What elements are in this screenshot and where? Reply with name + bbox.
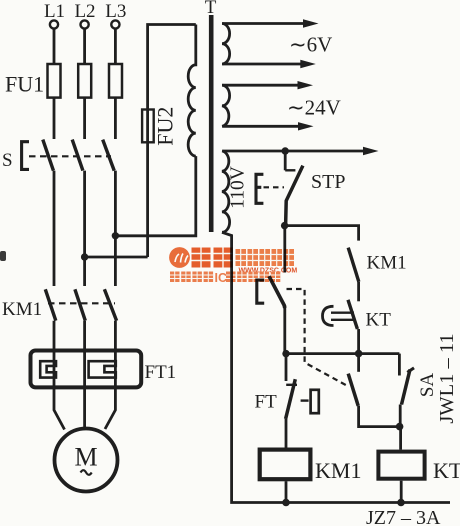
contact KT delayed blade (348, 300, 357, 329)
wire SA to node (399, 405, 402, 427)
pushbutton STP blade (286, 166, 303, 226)
wire 6V top with arrow (223, 22, 307, 25)
switch SA blade (402, 370, 411, 405)
contact FT thermal element (311, 390, 319, 413)
switch SA tick (407, 368, 414, 373)
wire L2 drop (83, 29, 86, 64)
wire L1 to switch (53, 98, 56, 139)
svg-text:T: T (205, 0, 217, 18)
node junction KT rail (397, 499, 405, 507)
transformer T core (209, 15, 214, 232)
contact KT-path NO lower lead (359, 406, 400, 427)
wire junction to KM1 branch (285, 226, 359, 241)
watermark slogan (170, 272, 280, 283)
svg-text:S: S (2, 150, 13, 171)
svg-text:STP: STP (311, 171, 345, 193)
coil KM1 (260, 450, 311, 480)
node junction 110V top (282, 147, 289, 154)
node L1 (44, 1, 65, 29)
contactor KM1 blade 1 (45, 289, 56, 320)
svg-text:∼6V: ∼6V (289, 33, 332, 57)
wire L3 to switch (114, 98, 117, 139)
wire 24V bottom with arrow (223, 125, 302, 128)
wire L1 KM1 to motor (54, 321, 65, 430)
wire L1 drop (53, 29, 56, 64)
switch S blade 2 (72, 140, 83, 171)
svg-text:KM1: KM1 (315, 458, 361, 483)
switch S blade 1 (43, 140, 54, 171)
svg-text:M: M (74, 443, 97, 472)
fuse FU2 (142, 110, 154, 143)
contact KM1 auxiliary blade (348, 248, 359, 282)
transformer 24V secondary winding (222, 85, 230, 126)
fuse FU1c (109, 64, 122, 98)
contact KT-path NO blade (348, 374, 358, 406)
fuse FU2 branch wire (148, 25, 196, 258)
svg-text:FU1: FU1 (5, 72, 44, 97)
contact FT blade (286, 379, 296, 419)
watermark text dianzishichangwang (236, 249, 295, 266)
watermark logo (169, 247, 190, 268)
svg-text:L1: L1 (44, 1, 65, 22)
coil KT (378, 452, 424, 479)
wire KM1 aux to KT contact (357, 282, 360, 302)
contact KT-path NO lead (357, 354, 360, 372)
watermark text weiku (192, 248, 233, 268)
wire 110V return rail (222, 232, 450, 502)
wire L3 drop (114, 29, 117, 64)
switch S blade 3 (103, 140, 115, 171)
wire L2 switch to KM1 (83, 171, 86, 286)
fuse FU1b (78, 64, 91, 98)
thermal relay FT1 box (31, 351, 142, 388)
svg-text:IC: IC (215, 271, 228, 285)
node junction KM1 rail (282, 499, 290, 507)
scan smudge left edge (0, 251, 6, 261)
transformer 6V secondary winding (222, 24, 230, 65)
svg-text:JZ7 – 3A: JZ7 – 3A (366, 507, 441, 526)
svg-text:SA: SA (417, 373, 438, 398)
node junction mid right (355, 350, 363, 358)
node junction mid left (282, 350, 289, 357)
wire 110V top rail with arrow (223, 150, 365, 153)
svg-text:KT: KT (366, 310, 392, 331)
fuse FU1a (48, 64, 61, 98)
transformer 110V secondary winding (222, 151, 230, 232)
pushbutton start actuator (257, 280, 264, 303)
pushbutton STP lead (284, 151, 287, 170)
transformer T primary winding (188, 25, 196, 157)
wire L1 switch to KM1 (53, 171, 56, 286)
node junction L3-primary (112, 232, 119, 239)
pushbutton STP actuator (256, 174, 263, 203)
svg-text:L2: L2 (74, 1, 95, 22)
pushbutton start blade (269, 276, 285, 308)
contact FT lead (285, 354, 288, 381)
svg-text:JWL1 – 11: JWL1 – 11 (436, 333, 458, 423)
wire KM1 coil to rail (285, 481, 288, 502)
node L3 (105, 1, 126, 29)
svg-text:KM1: KM1 (2, 299, 42, 320)
node junction below STP (281, 222, 288, 229)
switch S link dashed (29, 155, 111, 157)
thermal relay FT1 element 2 (89, 361, 116, 377)
node L2 (74, 1, 95, 29)
wire 6V bottom with arrow (223, 63, 304, 66)
svg-text:KM1: KM1 (367, 253, 407, 274)
switch SA lead (398, 354, 401, 376)
contactor KM1 link dashed (48, 302, 115, 304)
node junction SA-KT (396, 423, 404, 431)
wire node to KT coil (399, 427, 402, 450)
wire L2 KM1 to motor (83, 321, 86, 427)
pushbutton start link dashed (287, 289, 349, 387)
svg-text:110V: 110V (227, 166, 248, 209)
svg-text:KT: KT (433, 458, 460, 483)
svg-text:∼24V: ∼24V (287, 96, 341, 120)
motor M1 (55, 429, 118, 492)
switch S handle bracket (22, 142, 29, 170)
svg-text:L3: L3 (105, 1, 126, 22)
wire KT coil to rail (400, 481, 403, 503)
wire L3 KM1 to motor (105, 321, 115, 429)
wire L3 switch to KM1 (114, 171, 117, 286)
contact FT stop bar (286, 384, 297, 386)
wire 24V top with arrow (223, 84, 301, 87)
wire mid horizontal (286, 352, 399, 355)
svg-text:FT1: FT1 (145, 362, 177, 383)
svg-text:FU2: FU2 (153, 107, 178, 146)
wire L2 junction to FU2 (81, 253, 88, 260)
wire primary bottom to L3 junction (115, 156, 195, 236)
pushbutton start lead lower (283, 305, 286, 353)
wire L2 to switch (83, 98, 86, 139)
svg-text:FT: FT (255, 392, 278, 413)
pushbutton STP link dashed (264, 186, 285, 188)
contactor KM1 blade 3 (104, 289, 116, 320)
contactor KM1 blade 2 (75, 289, 85, 320)
pushbutton start lead (283, 226, 286, 273)
pushbutton STP stop bar (285, 169, 295, 171)
contact KT delay cup (323, 306, 334, 325)
thermal relay FT1 element 1 (40, 361, 56, 377)
wire FT to KM1 coil (285, 419, 288, 448)
wire KT contact to node (357, 329, 360, 354)
